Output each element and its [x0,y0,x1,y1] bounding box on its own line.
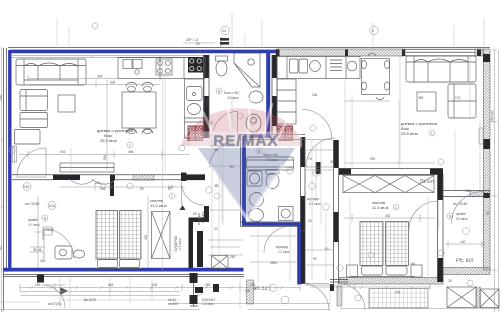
bottom corridor long dims [20,284,300,291]
hatch strip between shafts [477,287,481,308]
scattered circled marks [9,113,469,304]
door jamb stub near bathroom door [316,162,321,174]
svg-text:ап.57(36): ап.57(36) [48,302,62,306]
vertical dim through left living [106,80,108,170]
extra ticks bottom dim [55,284,270,291]
balloon white band [190,132,302,148]
hob 4 rings left [156,59,172,75]
sectional corner right [448,84,476,118]
entry door arc right apartment [339,284,365,310]
lower bathroom: washing machine [279,207,294,221]
lower bathroom: door arc to corridor [306,138,335,167]
sofa left living [16,59,86,85]
right apartment interior dims [352,56,470,190]
top dimension ticks [183,37,221,47]
wall stub right of entry [330,280,348,283]
sliding door curves in wall y177 [70,180,116,185]
radiator left wall [13,146,17,162]
door arc right bedroom [409,201,438,230]
extra texture: corridor bottom verticals [60,278,330,309]
wall: top of lower bathroom [240,135,305,140]
bed right bedroom [350,222,415,277]
svg-text:4.7 кв.м: 4.7 кв.м [28,223,39,227]
shaft hatched red block right [278,126,293,141]
svg-text:1: 1 [395,206,397,210]
svg-text:ап.+19.85: ап.+19.85 [453,202,467,206]
svg-text:Б1а: Б1а [49,204,55,208]
coffee table left [58,95,75,112]
shaft X box right 2 [480,289,499,308]
dim line above TV wall [19,151,190,158]
svg-text:90: 90 [325,247,329,251]
svg-text:коридор: коридор [276,245,288,249]
nightstands right bed [347,265,358,277]
svg-text:1.2 кв.м: 1.2 кв.м [202,302,213,306]
lower bathroom: washbasin round [250,193,264,207]
svg-text:РЕ юл: РЕ юл [456,258,474,264]
wall: right bedroom right side [438,174,444,200]
svg-text:1: 1 [431,132,433,136]
svg-text:90: 90 [214,148,218,152]
svg-text:1: 1 [171,195,173,199]
left margin dim line [1,48,4,312]
upper WC: sink [249,91,263,103]
bedroom dim line below wall [60,183,185,191]
black door jamb bottom left [37,275,44,283]
svg-text:блок с WC: блок с WC [224,91,240,95]
svg-text:90: 90 [0,246,3,250]
svg-text:302: 302 [330,160,336,164]
upper WC: corner shower [234,53,260,87]
upper WC: toilet [216,56,228,76]
svg-text:175: 175 [300,229,306,233]
wall: right corridor left side [334,140,339,168]
kitchen lower counter left (sink column) [185,79,205,138]
svg-text:174: 174 [168,185,174,189]
svg-text:Б1б: Б1б [24,185,30,189]
svg-text:Б: Б [372,29,374,33]
interior wall: left kitchen / WC divider [204,55,210,78]
wall: left corridor right side black [197,231,203,267]
svg-text:6.2 кв.м: 6.2 кв.м [201,212,205,223]
wall: left of lower bathroom [241,134,246,226]
svg-text:ПК 46: ПК 46 [33,248,42,252]
svg-text:B: B [258,150,260,154]
wall: bottom of lower bathroom [241,222,303,227]
right margin dim lines [492,50,499,312]
hatched strip below entry [247,280,254,304]
TV stand left living [60,163,114,172]
extra texture: entry hall dims [250,236,298,262]
foyer dims [35,196,41,268]
svg-text:302: 302 [385,214,391,218]
bottom wall band of right apartment (foyer) [443,268,490,275]
top wall outer edge [8,47,490,49]
svg-text:25: 25 [448,279,452,283]
window frame ticks in top wall [276,50,490,199]
svg-text:ап.+19.85: ап.+19.85 [25,202,39,206]
svg-text:1.2 кв.м: 1.2 кв.м [278,250,289,254]
svg-text:100: 100 [245,289,251,293]
svg-text:543: 543 [108,283,114,287]
top axis verticals [57,13,484,54]
svg-text:30: 30 [486,211,490,215]
svg-text:394: 394 [370,157,376,161]
svg-text:фоайе: фоайе [456,212,466,216]
svg-text:245: 245 [95,181,101,185]
blue outline jog left [244,134,270,137]
blue outline entry vertical [297,224,301,285]
extra texture: right living verticals [345,56,480,190]
hatch strip below right corridor [337,286,342,306]
blue outline bottom edge [3,268,244,272]
blue outline bathroom left vertical [242,136,245,224]
svg-text:6.2 кв.м: 6.2 кв.м [309,202,320,206]
blue outline bathroom bottom horizontal [242,222,301,225]
svg-text:1.3 кв.м: 1.3 кв.м [178,239,182,250]
armchair stack left [15,90,48,145]
svg-text:140: 140 [465,189,471,193]
blue outline mid vertical upper [266,53,270,136]
blue outline top edge [10,50,277,54]
svg-text:13.2 кв.м: 13.2 кв.м [150,203,167,208]
svg-text:384: 384 [196,50,202,54]
svg-text:10 КМ: 10 КМ [206,99,210,108]
interior wall: right of blue mid vertical [272,55,277,78]
left outer wall [4,48,7,310]
small circles extra [92,23,473,286]
right bedroom dims [344,214,435,222]
svg-text:264: 264 [312,93,318,97]
blue outline left edge [8,50,11,271]
wall: right bedroom top [339,169,443,175]
right foyer dim line [445,241,485,247]
coffee table right [417,92,436,111]
wall: left living/bedroom divider y=175 [12,175,205,180]
svg-text:ЭВ: ЭВ [214,184,218,188]
svg-text:1: 1 [129,144,131,148]
svg-text:140: 140 [460,240,466,244]
svg-text:454: 454 [144,234,148,240]
upper WC: toilet 2 [246,114,261,132]
svg-text:ПК 46: ПК 46 [85,268,94,272]
living room interior dim lines left [28,75,160,87]
wardrobe X right bedroom [343,176,434,193]
dining table right [361,54,389,100]
wall: left bedroom right side [181,173,187,182]
lower bathroom: bathtub [247,157,294,170]
svg-text:290: 290 [395,291,401,295]
small marks near entry doors [195,287,203,293]
svg-text:75: 75 [308,157,312,161]
svg-text:4.5 кв.м: 4.5 кв.м [227,96,238,100]
shaft hatched red block left [188,126,203,141]
left bottom room lines [30,228,44,252]
svg-text:20: 20 [214,227,218,231]
svg-text:25210: 25210 [45,228,54,232]
kitchen counter top row left [118,58,205,79]
bottom outer line [0,309,500,310]
nightstand with lamp left [55,246,72,259]
svg-text:359: 359 [418,96,424,100]
svg-text:90: 90 [313,257,317,261]
lower bathroom: toilet [266,170,279,189]
svg-text:173: 173 [455,96,461,100]
svg-text:пв.340: пв.340 [168,302,178,306]
top wall inner sill lines (left apartment, under blue) [12,56,204,58]
window sill detail top left [92,56,160,58]
svg-text:240: 240 [35,283,41,287]
svg-text:70: 70 [210,121,214,125]
svg-text:150: 150 [40,259,46,263]
svg-text:баня с WC: баня с WC [263,153,279,157]
line above right corridor bottom [305,284,338,286]
bottom left door arc (corridor) [42,285,65,308]
terrace grid right [369,289,428,309]
svg-text:Пк юл: Пк юл [420,179,434,185]
svg-text:80: 80 [230,165,234,169]
svg-text:92: 92 [222,143,226,147]
svg-text:25.0 кв.м: 25.0 кв.м [100,138,117,143]
door arc right bathroom (from corridor) [302,110,332,140]
kitchen counter top row right [277,57,360,79]
wall: foyer/bedroom divider [110,180,114,196]
svg-text:Ви./67/5: Ви./67/5 [84,298,96,302]
svg-text:Б1: Б1 [223,29,227,33]
svg-text:B: B [218,90,220,94]
extra texture: left apartment corridor dims [208,210,243,240]
radiator right wall [479,128,483,144]
door arc: foyer lower door [44,229,74,259]
right kitchen lower counter [277,79,296,124]
wardrobe X left bedroom [152,212,171,259]
balloon blue bottom [198,148,295,219]
svg-text:дневна с кухненски: дневна с кухненски [97,128,133,133]
dining table left [122,83,156,134]
svg-text:404: 404 [60,150,66,154]
wall: right of lower bathroom / entry [301,137,306,167]
svg-text:259: 259 [250,283,256,287]
svg-text:05: 05 [196,42,200,46]
left kitchen faucet dot [193,93,196,96]
bottom wall band right bedroom [339,278,443,285]
axis bubble top right [370,26,378,34]
svg-text:160: 160 [410,262,416,266]
door arc right foyer [452,192,484,224]
extra texture: mid corridor horizontals [306,150,333,265]
door arc corridor-kitchen left [210,142,236,168]
svg-text:коридор: коридор [307,197,319,201]
lower bathroom: bidet [249,209,264,222]
black appliance block left kitchen [188,57,203,73]
svg-text:581: 581 [103,154,107,160]
right wall black top block [483,54,490,62]
svg-text:11.3 кв.м: 11.3 кв.м [372,205,389,210]
svg-text:304: 304 [97,75,103,79]
svg-text:550/140: 550/140 [491,110,495,122]
svg-text:456: 456 [128,150,134,154]
svg-text:4.5 кв.м: 4.5 кв.м [266,158,277,162]
svg-text:59: 59 [140,187,144,191]
extra texture pass 2 [70,142,326,308]
axis bubble B1 top [221,26,229,34]
door arc entry hall to bathroom [264,227,290,253]
svg-text:25.5 кв.м: 25.5 кв.м [401,131,418,136]
balloon red top fan [181,108,303,146]
svg-text:290: 290 [230,255,236,259]
sofa right living [406,56,476,82]
small shaft X-box left corridor [212,256,229,269]
right wall hatched [483,49,490,270]
bedroom vertical dim [147,196,149,268]
door arc bedroom (from corridor) [181,182,204,205]
svg-text:59б2: 59б2 [270,261,277,265]
svg-text:540: 540 [0,94,3,100]
wall: right foyer top [443,191,490,197]
shaft X box right 1 [447,287,476,308]
entry door arc left apartment [302,284,329,311]
svg-text:5.0 кв.м: 5.0 кв.м [456,217,467,221]
long vertical faint line through left living [71,55,165,270]
mid corridor dims [212,97,232,255]
long tick row bottom corridor [30,286,431,289]
bed left bedroom [96,211,141,269]
svg-text:фоайе: фоайе [28,218,38,222]
black jambs mid bottom [190,273,198,283]
bottom wall under blue band (left apartment) [3,275,244,277]
svg-text:15: 15 [308,219,312,223]
top wall hatched band (right apartment) [276,49,405,56]
upper WC: door arc [213,112,238,137]
svg-text:634: 634 [110,81,116,85]
door arc: living to foyer [17,148,46,177]
lower bathroom: sink unit [247,171,262,186]
